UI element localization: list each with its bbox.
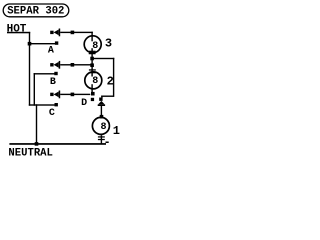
wire bypass right vertical [113, 58, 114, 97]
svg-text:8: 8 [92, 41, 98, 52]
junction dot lamp 2 top [90, 63, 94, 67]
junction dot lamp 1 top [100, 115, 104, 119]
wire lamp 1 bottom lead [101, 135, 102, 143]
wire lamp 3 bottom lead [91, 48, 92, 58]
junction dot trunk A [28, 42, 32, 46]
lamp 3 base ticks [89, 51, 96, 52]
wire row A [60, 32, 93, 33]
svg-text:HOT: HOT [7, 23, 27, 35]
wire neutral riser [36, 104, 37, 144]
wire row D [60, 94, 90, 95]
svg-text:8: 8 [101, 122, 107, 133]
node A terminal square [55, 41, 58, 44]
wire node C stub [29, 104, 56, 105]
svg-text:A: A [48, 46, 54, 57]
wire bypass top horizontal [92, 58, 114, 59]
wire lamp 2 top lead [91, 59, 92, 77]
junction dot row A [71, 31, 75, 35]
node D terminal square [91, 98, 94, 101]
wire lamp 3 top lead [91, 32, 92, 42]
svg-text:2: 2 [107, 74, 114, 88]
wire plug to lamp 1 [101, 106, 102, 117]
junction dot lamp 3 bottom [90, 57, 94, 61]
junction dot row B [71, 63, 75, 67]
svg-text:NEUTRAL: NEUTRAL [8, 148, 53, 158]
wire node B stub [34, 73, 55, 74]
svg-text:D: D [81, 98, 87, 109]
node C terminal square [55, 103, 58, 106]
svg-text:C: C [49, 108, 55, 119]
connector plug row B [50, 61, 60, 69]
wire trunk A vertical (HOT to C stub) [29, 32, 30, 106]
wire bypass stub down to plug [101, 96, 102, 99]
junction dot row D [71, 93, 75, 97]
wire row B [60, 64, 92, 65]
connector plug row A [50, 29, 60, 37]
lamp 1 [92, 117, 109, 134]
junction dot neutral [35, 142, 39, 146]
wire lamp 2 bottom lead [91, 84, 92, 93]
svg-text:8: 8 [92, 76, 98, 87]
wire HOT underline [7, 32, 30, 34]
junction dot lamp 2 bottom [91, 92, 95, 96]
lamp 2 [85, 72, 102, 89]
wire node A stub [30, 43, 56, 44]
wire trunk B vertical [34, 73, 35, 106]
connector plug row D [50, 91, 60, 99]
svg-text:B: B [50, 77, 56, 88]
svg-text:3: 3 [105, 37, 112, 51]
lamp 1 base ticks [98, 136, 105, 137]
svg-text:SEPAR 302: SEPAR 302 [7, 6, 64, 18]
wire NEUTRAL rail [9, 143, 106, 145]
node B terminal square [54, 72, 57, 75]
lamp 3 [84, 36, 101, 53]
connector plug lamp 1 (vertical) [98, 98, 105, 107]
title box SEPAR 302 [3, 4, 69, 17]
wire bypass bottom horizontal [101, 96, 113, 97]
wire rail end hook [106, 142, 109, 144]
lamp 2 base ticks [89, 69, 96, 70]
svg-text:1: 1 [113, 124, 120, 138]
